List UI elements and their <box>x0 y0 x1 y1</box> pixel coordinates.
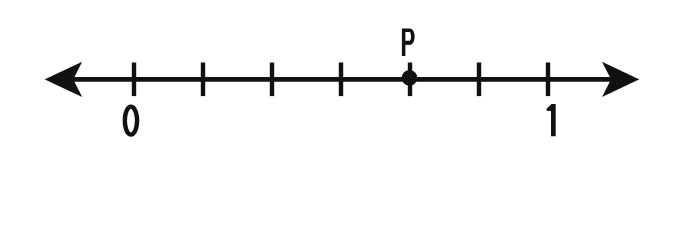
tick 6 <box>477 63 481 97</box>
label 0 <box>125 107 137 135</box>
right arrowhead <box>602 62 639 97</box>
tick 2 <box>201 63 205 97</box>
tick 3 <box>270 63 274 97</box>
tick 1 <box>546 63 550 97</box>
point P dot <box>402 70 418 86</box>
wire: number line shaft <box>70 77 612 82</box>
label 1 <box>547 104 556 136</box>
left arrowhead <box>45 62 83 97</box>
tick 0 <box>132 63 136 97</box>
label P <box>402 29 415 57</box>
tick 5 at P <box>408 63 412 97</box>
tick 4 <box>339 63 343 97</box>
